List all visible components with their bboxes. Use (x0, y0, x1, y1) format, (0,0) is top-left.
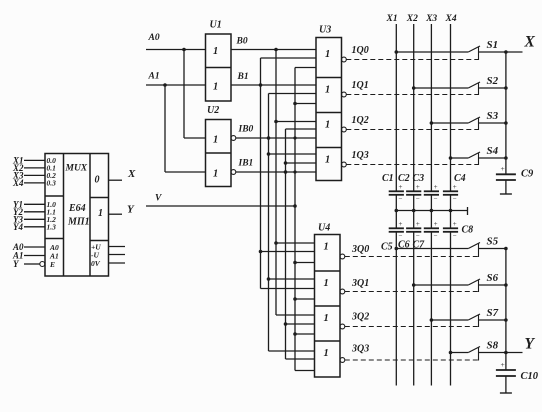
svg-text:X: X (524, 34, 536, 51)
svg-text:S2: S2 (487, 75, 499, 87)
switch S1 (468, 46, 480, 52)
wire B1 to U3 gate1 input b (261, 57, 317, 59)
junction V to strobe vertical (293, 204, 297, 208)
wire channel X1 vertical upper (395, 24, 397, 191)
wire from channel X line to switch S6 (414, 284, 469, 286)
U4 section divider 2 (315, 305, 341, 307)
wire IB0 to U4 gate4 input a (269, 350, 315, 352)
svg-text:X4: X4 (12, 178, 24, 188)
inverter circle on strobe pin (40, 262, 45, 267)
C9 ground terminal bar (500, 193, 512, 195)
capacitor C1 (389, 190, 404, 192)
svg-text:U1: U1 (210, 20, 222, 31)
wire address input A0 to MUX (24, 246, 45, 248)
junction IB1 branch (284, 170, 288, 174)
junction on channel line at S7 (430, 318, 434, 322)
svg-text:U4: U4 (318, 223, 330, 234)
wire bus to C6 (413, 211, 415, 229)
svg-text:1: 1 (324, 242, 329, 253)
wire from channel X line to switch S7 (431, 319, 468, 321)
wire V to U3 gate2 input c (295, 103, 316, 105)
junction B0 branch (274, 48, 278, 52)
wire channel X2 vertical lower (413, 232, 415, 386)
wire net B0 vertical (275, 50, 277, 316)
U4 gate 1 output inversion bubble 3Q0 (340, 254, 345, 259)
U4 gate 3 output inversion bubble 3Q2 (340, 324, 345, 329)
svg-text:1: 1 (324, 313, 329, 324)
switch S4 (468, 152, 480, 158)
svg-text:E64: E64 (68, 203, 86, 214)
svg-text:+: + (453, 220, 457, 228)
capacitor C2 (406, 190, 421, 192)
wire B1 to U4 gate1 input b (261, 251, 315, 253)
wire input Y1 to MUX (24, 203, 45, 205)
wire IB1 to U3 gate4 input b (286, 162, 317, 164)
wire V to U4 gate3 input c (295, 333, 315, 335)
svg-text:1: 1 (325, 120, 330, 131)
junction bus X4 (449, 209, 453, 213)
junction on channel line at S8 (449, 351, 453, 355)
wire V to U4 gate1 input c (295, 262, 315, 264)
svg-text:+: + (434, 220, 438, 228)
svg-text:−: − (416, 195, 420, 203)
svg-text:1: 1 (213, 82, 218, 93)
wire channel X4 vertical upper (450, 24, 452, 191)
svg-text:Y4: Y4 (13, 222, 23, 232)
junction at B1 to U4 gate1 input b (259, 250, 263, 254)
svg-text:IB0: IB0 (238, 125, 254, 135)
svg-text:U2: U2 (207, 105, 219, 116)
wire switch S6 output to common line (479, 284, 506, 286)
wire power pin -U (109, 254, 126, 256)
MUX right column divider between outputs 0 and 1 (90, 197, 109, 199)
wire B1 from U1 to U3 gate2 input (231, 84, 316, 86)
inverter U2 body (206, 120, 232, 187)
wire IB0 to U3 gate4 input a (269, 153, 317, 155)
wire input X2 to MUX (24, 167, 45, 169)
wire channel X2 vertical upper (413, 24, 415, 191)
svg-text:+: + (399, 183, 403, 191)
wire C3 to bus (430, 195, 432, 211)
wire switch S1 output to common and terminal (479, 51, 523, 53)
U1 section divider (206, 67, 232, 69)
junction on channel line at S2 (412, 86, 416, 90)
U2 gate b output inversion bubble (231, 170, 236, 175)
wire input Y4 to MUX (24, 226, 45, 228)
wire control 1Q2 dashed from U3 to S3 (346, 129, 478, 131)
junction common line at S8 (504, 351, 508, 355)
decoder U4 body (315, 235, 341, 378)
svg-text:1Q2: 1Q2 (352, 115, 369, 126)
junction common line at S4 (504, 156, 508, 160)
U2 gate a output inversion bubble (231, 136, 236, 141)
junction at V to U4 gate1 input c (293, 261, 297, 265)
wire control 3Q2 dashed from U4 to S7 (345, 326, 479, 328)
junction common line at S6 (504, 283, 508, 287)
wire channel X4 vertical lower (450, 232, 452, 386)
svg-text:S3: S3 (487, 110, 499, 122)
U3 section divider 2 (316, 112, 342, 114)
svg-text:Y: Y (525, 336, 536, 353)
svg-text:1: 1 (325, 155, 330, 166)
svg-text:S5: S5 (487, 236, 499, 248)
switch S7 (468, 314, 480, 320)
svg-text:1: 1 (213, 135, 218, 146)
wire B1 to U4 gate2 input b (261, 288, 315, 290)
junction at IB0 to U4 gate2 input a (267, 277, 271, 281)
MUX right column divider above power pins (90, 240, 109, 242)
junction on A1 (163, 83, 167, 87)
svg-text:S7: S7 (487, 307, 499, 319)
wire IB0 to U4 gate2 input a (269, 278, 315, 280)
svg-text:1: 1 (325, 49, 330, 60)
junction at B0 to U4 gate1 input a (274, 241, 278, 245)
wire input Y2 to MUX (24, 211, 45, 213)
svg-text:3Q1: 3Q1 (351, 278, 369, 289)
svg-text:3Q3: 3Q3 (351, 344, 369, 355)
wire MUX output 1 to Y (109, 213, 123, 215)
junction on channel line at S3 (430, 121, 434, 125)
svg-text:−: − (453, 232, 457, 240)
svg-text:S4: S4 (487, 145, 499, 157)
wire IB1 to U4 gate4 input b (286, 358, 315, 360)
wire IB0 from U2 to U3 gate3 input (236, 137, 316, 139)
MUX left column group divider 1 (45, 195, 64, 197)
wire from channel X line to switch S3 (431, 122, 468, 124)
svg-text:IB1: IB1 (238, 159, 254, 169)
svg-text:−: − (399, 195, 403, 203)
wire C2 to bus (413, 195, 415, 211)
capacitor C3 (424, 190, 439, 192)
switch S6 (468, 279, 480, 285)
svg-text:3Q0: 3Q0 (351, 244, 369, 255)
capacitor C4 (443, 190, 458, 192)
capacitor C7 (424, 227, 439, 229)
svg-text:+: + (453, 183, 457, 191)
wire A0 branch down to U2 input a (183, 50, 185, 139)
wire control 1Q1 dashed from U3 to S2 (346, 94, 478, 96)
junction bus X1 (395, 209, 399, 213)
svg-text:1: 1 (98, 208, 103, 219)
svg-text:B0: B0 (236, 37, 248, 47)
junction at IB1 to U3 gate4 input b (284, 161, 288, 165)
junction bus X2 (412, 209, 416, 213)
junction common line at S2 (504, 86, 508, 90)
U4 section divider 1 (315, 270, 341, 272)
wire IB1 to U3 gate3 input b (286, 128, 317, 130)
junction on channel line at S1 (395, 50, 399, 54)
U3 section divider 1 (316, 77, 342, 79)
svg-text:C4: C4 (454, 173, 466, 184)
wire from channel X line to switch S2 (414, 87, 469, 89)
wire switch S3 output to common line (479, 122, 506, 124)
wire V to U4 gate2 input c (295, 298, 315, 300)
switch S3 (468, 117, 480, 123)
svg-text:MUX: MUX (65, 164, 88, 174)
svg-text:+: + (399, 220, 403, 228)
wire switch S4 output to common line (479, 157, 506, 159)
U2 section divider (206, 152, 232, 154)
U4 section divider 3 (315, 340, 341, 342)
wire control 1Q3 dashed from U3 to S4 (346, 164, 478, 166)
wire net V vertical (294, 68, 296, 371)
MUX pin-field column divider left (63, 154, 65, 277)
wire bus to C7 (430, 211, 432, 229)
wire input X1 to MUX (24, 159, 45, 161)
U4 gate 2 output inversion bubble 3Q1 (340, 289, 345, 294)
U3 section divider 3 (316, 147, 342, 149)
svg-text:1: 1 (324, 348, 329, 359)
capacitor C9 (496, 173, 516, 175)
svg-text:C5: C5 (381, 242, 393, 253)
wire control 3Q1 dashed from U4 to S6 (345, 291, 479, 293)
MUX pin-field column divider right (89, 154, 91, 277)
junction on channel line at S5 (395, 247, 399, 251)
wire C10 to terminal (505, 376, 507, 393)
svg-text:1: 1 (213, 169, 218, 180)
svg-text:−: − (434, 195, 438, 203)
buffer U1 body (206, 34, 232, 101)
svg-text:S8: S8 (487, 340, 499, 352)
capacitor C5 (389, 227, 404, 229)
wire strobe input Y to MUX (active low) (24, 263, 40, 265)
wire B0 to U4 gate1 input a (276, 242, 315, 244)
wire power pin +U (109, 246, 126, 248)
svg-text:X4: X4 (445, 14, 457, 24)
wire V to U3 gate1 input c (295, 67, 316, 69)
wire from channel X line to switch S5 (396, 248, 468, 250)
svg-text:X: X (127, 168, 136, 180)
svg-text:C3: C3 (413, 173, 425, 184)
capacitor C10 (496, 369, 516, 371)
wire control 3Q0 dashed from U4 to S5 (345, 256, 479, 258)
wire switch S5 output to common line (479, 248, 506, 250)
svg-text:1: 1 (324, 278, 329, 289)
wire control 3Q3 dashed from U4 to S8 (345, 359, 479, 361)
junction at V to U4 gate3 input c (293, 332, 297, 336)
decoder U3 body (316, 38, 342, 181)
MUX left column group divider 2 (45, 238, 64, 240)
wire net B1 vertical (260, 58, 262, 289)
wire A0 into U1 (146, 49, 206, 51)
wire input X3 to MUX (24, 174, 45, 176)
wire MUX output 0 to X (109, 179, 123, 181)
switch S2 (468, 82, 480, 88)
switch S5 (468, 243, 480, 249)
wire net IB1 vertical (285, 129, 287, 359)
wire bus to C5 (395, 211, 397, 229)
U4 gate 4 output inversion bubble 3Q3 (340, 358, 345, 363)
svg-text:C8: C8 (462, 225, 474, 236)
wire B0 to U4 gate3 input a (276, 314, 315, 316)
IC U5 multiplexer MUX E64 body (45, 154, 109, 277)
svg-text:1: 1 (213, 46, 218, 57)
junction B1 branch (259, 83, 263, 87)
wire switch S2 output to common line (479, 87, 506, 89)
svg-text:1: 1 (325, 85, 330, 96)
svg-text:3Q2: 3Q2 (351, 312, 369, 323)
wire input Y3 to MUX (24, 218, 45, 220)
C10 ground terminal bar (500, 392, 512, 394)
bus end terminal tick (467, 207, 469, 215)
junction on A0 (182, 48, 186, 52)
wire bus to C8 (450, 211, 452, 229)
svg-text:1Q3: 1Q3 (352, 150, 369, 161)
svg-text:+: + (501, 164, 505, 173)
junction IB0 at strobe vertical (293, 136, 296, 139)
wire V to U4 gate4 input c (295, 370, 315, 372)
svg-text:A0: A0 (148, 33, 160, 43)
svg-text:−: − (453, 195, 457, 203)
svg-text:1.3: 1.3 (47, 223, 57, 232)
svg-text:X1: X1 (386, 14, 398, 24)
junction common line at S7 (504, 318, 508, 322)
junction common line at S5 (504, 247, 508, 251)
svg-text:C2: C2 (398, 173, 410, 184)
wire B0 to U3 gate3 input a (276, 121, 316, 123)
wire from channel X line to switch S8 (451, 352, 469, 354)
wire switch S8 output to common and terminal (479, 352, 523, 354)
wire input X4 to MUX (24, 182, 45, 184)
svg-text:S1: S1 (487, 39, 499, 51)
svg-text:U3: U3 (319, 25, 331, 36)
svg-text:1Q1: 1Q1 (352, 80, 369, 91)
junction on channel line at S4 (449, 156, 453, 160)
wire C1 to bus (395, 195, 397, 211)
wire common output line X vertical (505, 52, 507, 174)
wire address input A1 to MUX (24, 255, 45, 257)
wire B0 from U1 to U3 gate1 input (231, 49, 316, 51)
wire C4 to bus (450, 195, 452, 211)
wire common bus of storage capacitors (396, 210, 467, 212)
svg-text:0.3: 0.3 (47, 179, 57, 188)
U3 gate 2 output inversion bubble 1Q1 (342, 92, 347, 97)
svg-text:МП1: МП1 (67, 217, 90, 228)
wire C9 to terminal (505, 180, 507, 194)
svg-text:0V: 0V (91, 259, 101, 268)
wire net IB0 vertical (268, 94, 270, 352)
wire control 1Q0 dashed from U3 to S1 (346, 59, 478, 61)
wire channel X1 vertical lower (395, 232, 397, 386)
wire from channel X line to switch S4 (451, 157, 469, 159)
junction on channel line at S6 (412, 283, 416, 287)
junction IB1 at strobe vertical (293, 170, 296, 173)
svg-text:B1: B1 (237, 72, 249, 82)
capacitor C6 (406, 227, 421, 229)
capacitor C8 (443, 227, 458, 229)
svg-text:X3: X3 (425, 14, 437, 24)
wire IB1 from U2 to U3 gate4 input (236, 171, 316, 173)
junction at B0 to U3 gate3 input a (274, 120, 278, 124)
svg-text:E: E (49, 260, 55, 269)
svg-text:−: − (434, 232, 438, 240)
wire channel X3 vertical lower (430, 232, 432, 386)
wire power pin 0V (109, 262, 126, 264)
svg-text:X2: X2 (406, 14, 418, 24)
svg-text:S6: S6 (487, 272, 499, 284)
junction at IB1 to U4 gate3 input b (284, 322, 288, 326)
svg-text:+: + (501, 360, 505, 369)
junction common line at S3 (504, 121, 508, 125)
U3 gate 4 output inversion bubble 1Q3 (342, 162, 347, 167)
U3 gate 1 output inversion bubble 1Q0 (342, 57, 347, 62)
junction at IB0 to U3 gate4 input a (267, 152, 271, 156)
svg-text:+: + (416, 183, 420, 191)
wire IB1 to U4 gate3 input b (286, 323, 315, 325)
U3 gate 3 output inversion bubble 1Q2 (342, 127, 347, 132)
svg-text:C9: C9 (521, 169, 534, 180)
switch S8 (468, 347, 480, 353)
svg-text:0: 0 (95, 175, 100, 186)
junction at V to U4 gate2 input c (293, 297, 297, 301)
wire switch S7 output to common line (479, 319, 506, 321)
wire V strobe line (146, 205, 295, 207)
svg-text:+: + (434, 183, 438, 191)
wire channel X3 vertical upper (430, 24, 432, 191)
svg-text:+: + (416, 220, 420, 228)
wire common output line Y vertical (505, 249, 507, 371)
wire A1 branch down to U2 input b (164, 85, 166, 172)
svg-text:A1: A1 (148, 72, 160, 82)
svg-text:C1: C1 (382, 173, 394, 184)
junction at V to U3 gate2 input c (293, 102, 297, 106)
wire from channel X line to switch S1 (396, 51, 468, 53)
svg-text:V: V (155, 194, 162, 204)
svg-text:1Q0: 1Q0 (352, 45, 369, 56)
junction bus X3 (430, 209, 434, 213)
junction common line at S1 (504, 50, 508, 54)
wire A1 into U1 (146, 84, 206, 86)
wire IB0 to U3 gate2 input b (269, 93, 317, 95)
svg-text:C10: C10 (521, 371, 539, 382)
junction IB0 branch (267, 136, 271, 140)
